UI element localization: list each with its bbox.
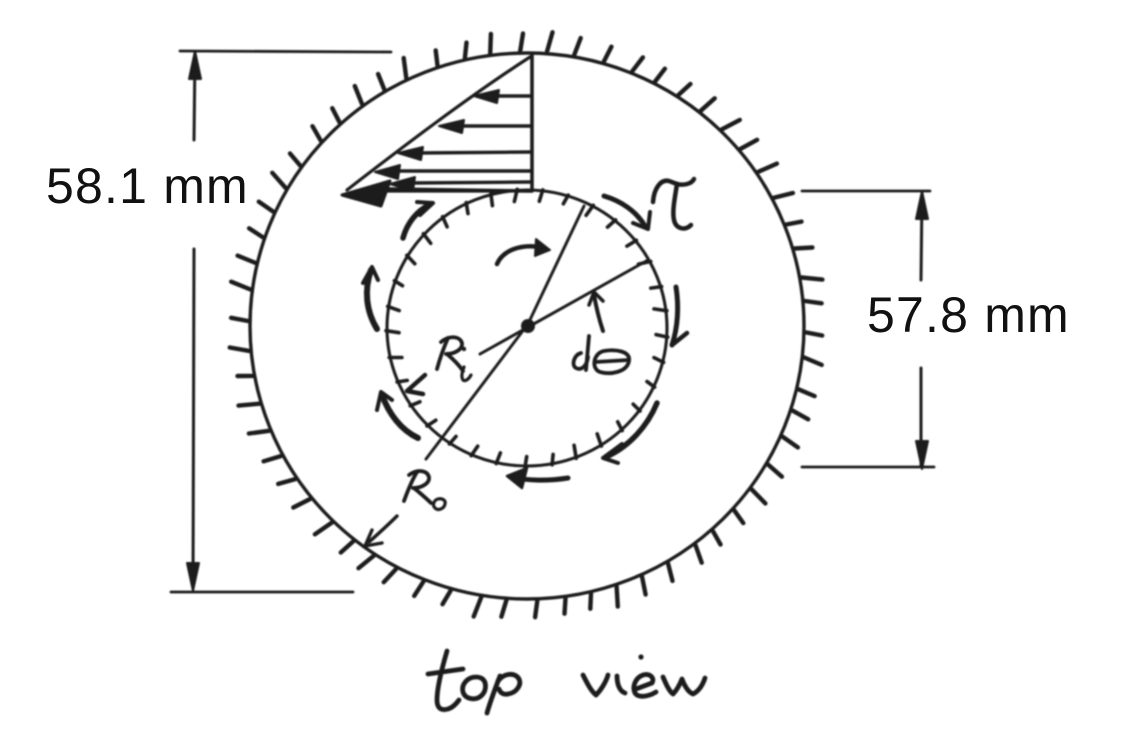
velocity arrow 4 [395,169,531,172]
rotation arrow upper-left [403,205,429,238]
d-theta label [574,353,588,369]
left dimension top tick line [180,51,391,52]
inner cylinder wall [387,190,667,466]
velocity arrow 3 [417,152,531,153]
R_i label [437,338,448,369]
velocity profile vertical axis [530,55,534,191]
shaft line lower (towards R_o) [426,324,528,459]
velocity arrow 5 [410,182,531,183]
right dimension upper line [921,194,922,280]
rotation arrow bottom-right [608,403,657,456]
svg-text:57.8 mm: 57.8 mm [867,287,1070,343]
caption: top view [428,651,705,713]
left dimension upper line [194,53,195,140]
R_o label [404,472,417,501]
rotation arrow left [367,270,377,329]
R_o arrow [369,516,397,542]
rotation arrow right [672,287,678,345]
left dimension up arrow [189,51,201,79]
velocity arrow 1 [492,94,531,97]
right dimension top tick line [802,190,930,193]
left dimension down arrow [187,563,199,591]
right dimension bottom tick line [802,466,934,469]
tau label [653,179,694,202]
rotation arrow lower-left [382,395,418,438]
outer cylinder wall [250,53,804,599]
left dimension lower line [193,249,194,588]
inner wall arrowhead lower-left [407,375,425,394]
torque arrow [604,196,645,226]
d-theta arrow [594,295,603,331]
angle sweep arrow [497,246,540,264]
svg-text:58.1 mm: 58.1 mm [46,158,249,214]
rotation arrow bottom [511,477,568,480]
velocity profile base line [356,189,531,192]
shaft line upper (to top of inner circle) [528,206,584,324]
right dimension down arrow [916,441,928,469]
velocity arrow 6 (longest, bold head) [390,189,531,191]
right dimension lower line [920,368,923,465]
velocity profile hypotenuse [347,57,530,190]
inner radius line (R_i / d-theta line) [480,260,648,354]
left dimension bottom tick line [171,591,353,594]
center pivot dot [521,319,535,333]
inner wall hatching [386,189,668,467]
velocity arrow 2 [458,124,531,127]
right dimension up arrow [916,191,928,219]
outer wall hatching [230,32,823,617]
